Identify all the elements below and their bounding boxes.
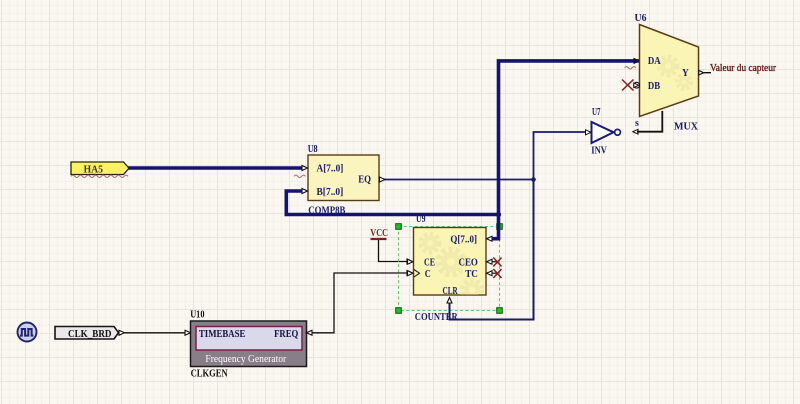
pin connector Y (right)	[699, 70, 704, 75]
pin connector EQ (right)	[380, 177, 386, 182]
svg-text:CLK_BRD: CLK_BRD	[68, 328, 112, 340]
svg-text:COUNTER: COUNTER	[415, 312, 458, 323]
svg-text:U6: U6	[635, 13, 647, 24]
no-connect X on TC	[493, 269, 501, 278]
svg-text:CE: CE	[424, 257, 435, 268]
bus B loop from B[7..0] to junction	[286, 191, 498, 215]
U10 clock generator block	[191, 321, 307, 367]
wire Y output	[702, 72, 711, 74]
no-connect X on DB	[622, 80, 634, 91]
pin connector B (left)	[302, 189, 308, 194]
pin connector CEO (right) with stub	[487, 259, 498, 264]
pin connector DA	[634, 58, 639, 63]
svg-text:MUX: MUX	[674, 122, 698, 133]
bus Q[7..0] up to DA	[492, 61, 640, 239]
svg-text:s: s	[635, 118, 639, 129]
svg-text:Y: Y	[682, 68, 689, 79]
svg-text:Valeur du capteur: Valeur du capteur	[710, 63, 776, 74]
U7 inverter	[592, 122, 621, 143]
pin connector Q (right)	[487, 236, 493, 241]
wire EQ to CLR (loop below)	[450, 180, 534, 320]
svg-text:Q[7..0]: Q[7..0]	[450, 234, 477, 245]
clock source icon	[18, 323, 37, 342]
U6 multiplexer block	[635, 25, 699, 129]
svg-text:U8: U8	[308, 144, 318, 155]
svg-text:VCC: VCC	[370, 228, 388, 239]
bus HA5 to A[7..0]	[128, 166, 302, 170]
wire junction at EQ branch	[531, 177, 536, 182]
svg-text:U7: U7	[592, 107, 601, 118]
selection rectangle around U9	[396, 224, 503, 314]
svg-text:HA5: HA5	[84, 164, 103, 175]
net label HA5	[71, 162, 129, 175]
pin connector TC (right) with stub	[487, 271, 498, 276]
pin connector A (left)	[302, 166, 308, 171]
svg-text:TIMEBASE: TIMEBASE	[199, 329, 246, 340]
pin connector INV output	[633, 129, 638, 134]
error squiggle under DA pin	[625, 67, 636, 69]
wire CLK_BRD to U10 TIMEBASE	[119, 330, 191, 335]
wire VCC to counter CE input	[379, 240, 413, 264]
svg-text:CLKGEN: CLKGEN	[191, 369, 228, 380]
no-connect X on CEO	[493, 258, 501, 267]
wire EQ to INV input	[534, 132, 586, 180]
svg-text:CEO: CEO	[459, 257, 478, 268]
svg-text:CLR: CLR	[443, 286, 458, 297]
error squiggle under HA5	[71, 175, 128, 177]
pin connector CE (left)	[408, 259, 414, 264]
power symbol VCC	[370, 228, 388, 239]
svg-text:Frequency Generator: Frequency Generator	[205, 354, 286, 365]
wire INV output to MUX s pin	[637, 111, 662, 132]
U8 comparator block	[308, 155, 379, 201]
svg-text:FREQ: FREQ	[274, 329, 298, 340]
wire FREQ to counter C input	[307, 271, 413, 336]
pin connector DB with bubble	[634, 82, 640, 88]
bus junction at vertical bus	[496, 212, 501, 217]
svg-text:TC: TC	[465, 269, 478, 280]
U9 counter block	[414, 228, 487, 301]
svg-text:INV: INV	[591, 145, 607, 156]
svg-text:U10: U10	[190, 309, 204, 320]
wire EQ output	[384, 179, 534, 181]
net label CLK_BRD	[55, 327, 119, 340]
svg-text:C: C	[425, 269, 431, 280]
pin connector C (left) with clock mark	[408, 270, 420, 277]
svg-text:B[7..0]: B[7..0]	[317, 187, 344, 198]
pin connector CLR (bottom, pointing up)	[447, 298, 452, 304]
svg-text:A[7..0]: A[7..0]	[317, 163, 344, 174]
svg-text:DA: DA	[648, 56, 661, 67]
pin connector INV input	[586, 130, 592, 135]
svg-text:EQ: EQ	[358, 175, 371, 186]
error squiggle under A pin	[294, 175, 305, 177]
svg-text:DB: DB	[648, 81, 660, 92]
